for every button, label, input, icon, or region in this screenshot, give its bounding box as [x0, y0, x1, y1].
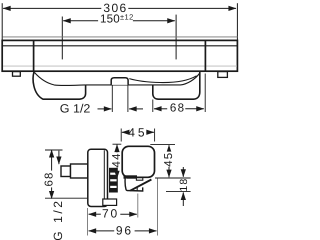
supply nipple collar (side view) — [71, 164, 88, 178]
handle outline (side view) — [125, 178, 143, 191]
left handle swoosh curve — [35, 73, 86, 86]
bar lower highlight line (gray) — [3, 65, 237, 67]
dimension 45 height line with arrows — [168, 145, 170, 177]
dimension 70 ext right (gray) — [137, 194, 139, 218]
svg-text:68: 68 — [170, 102, 186, 115]
svg-text:45: 45 — [163, 152, 175, 167]
svg-text:68: 68 — [43, 171, 55, 186]
dimension 150 line left segment with arrow — [63, 20, 98, 22]
dimension 306 extension line left — [1, 3, 3, 40]
svg-text:18: 18 — [178, 178, 190, 192]
outlet extension line left — [111, 86, 113, 113]
svg-text:G 1/2: G 1/2 — [60, 102, 91, 116]
dimension 44 vertical line with arrows — [116, 145, 118, 179]
left handle cup outline — [33, 72, 86, 99]
outlet outside arrow right — [129, 108, 143, 110]
dimension 44 text backing — [112, 152, 121, 167]
dimension 70 line with arrows — [89, 213, 101, 215]
svg-text:44: 44 — [111, 152, 123, 167]
supply nipple thread stub (side view) — [61, 166, 71, 177]
outlet extension line right — [127, 86, 129, 113]
escutcheon face line — [103, 150, 105, 206]
dimension 68 vertical ext bottom — [45, 197, 87, 199]
dimension 68 line with arrows — [154, 108, 167, 110]
nipple top leader arrow — [58, 151, 60, 164]
bar body outline — [2, 40, 237, 71]
svg-text:G 1/2: G 1/2 — [51, 198, 65, 240]
body square (side view) — [122, 146, 154, 177]
dimension 68 extension line left (handle edge) — [152, 100, 154, 113]
svg-text:150: 150 — [100, 13, 120, 26]
dimension 150 extension line left — [61, 17, 63, 60]
shower outlet nipple (front view) — [111, 78, 128, 85]
mid horizontal line between handles — [86, 74, 200, 85]
bar top back edge (gray) — [3, 36, 238, 38]
supply center line left (inside bar) — [61, 41, 63, 59]
svg-text:45: 45 — [128, 125, 147, 139]
bar left end cap divider — [33, 40, 35, 71]
dimension 18 ext bottom — [166, 191, 191, 193]
bar right end cap divider — [204, 40, 206, 71]
dimension 70/96 shared ext left (gray) — [87, 208, 89, 236]
dimension 68 vertical line with arrows — [51, 150, 53, 199]
left foot tab — [13, 72, 21, 77]
dimension 306 line right segment with arrow — [128, 7, 236, 9]
dimension 68 vertical ext top — [45, 149, 63, 151]
dimension 45 height text backing — [164, 152, 173, 167]
supply center line right (inside bar) — [175, 41, 177, 59]
svg-text:96: 96 — [116, 223, 133, 237]
dimension 45 width ext line right — [154, 129, 156, 142]
thread stack between disc and body — [109, 168, 118, 193]
dimension 150 line right segment with arrow — [133, 20, 175, 22]
dimension 45 width line with arrows — [122, 131, 130, 133]
dimension 68 vertical text backing — [44, 171, 53, 188]
right handle swoosh curve — [129, 76, 196, 83]
dimension 96 line with arrows — [89, 230, 115, 232]
bottom outlet stub (side view) — [103, 199, 117, 205]
dimension 18 lower outside arrow — [182, 192, 184, 206]
handle top notch — [136, 178, 142, 181]
dimension 45 width ext line left — [120, 129, 122, 142]
right foot tab — [218, 72, 228, 78]
dimension 306 line left segment with arrow — [3, 7, 101, 9]
bar inner top line — [3, 45, 237, 47]
svg-text:70: 70 — [102, 206, 119, 220]
handle notch vertical — [136, 187, 138, 191]
dimension 45 height ext bottom — [155, 177, 191, 179]
wall escutcheon disc (side view) — [88, 149, 108, 206]
dimension 18 upper outside arrow — [182, 167, 184, 177]
handle front diagonal — [130, 180, 151, 191]
long vertical ext line body right edge (gray) — [157, 179, 159, 236]
dimension 306 extension line right — [236, 3, 238, 40]
dimension 44 tick top — [113, 143, 122, 145]
dimension 150 extension line right — [175, 15, 177, 60]
right handle cup outline — [153, 72, 200, 99]
dimension 68 extension line right — [204, 74, 206, 113]
handle hub thick segment — [124, 175, 138, 178]
svg-text:±12: ±12 — [120, 13, 134, 22]
dimension 45 height ext top — [150, 144, 175, 146]
G1/2 leader arrow — [98, 108, 112, 110]
